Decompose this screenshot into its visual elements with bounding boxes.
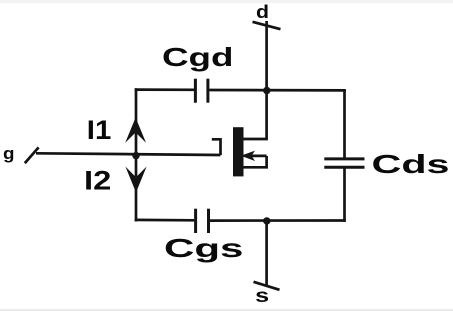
svg-text:s: s xyxy=(255,286,269,307)
capacitor Cgd xyxy=(195,79,208,103)
capacitor Cds xyxy=(324,159,364,167)
svg-text:I1: I1 xyxy=(87,115,112,145)
gate electrode xyxy=(212,139,221,155)
source lead xyxy=(244,156,267,167)
node source junction xyxy=(263,217,270,224)
node gate junction xyxy=(132,152,139,159)
channel bar xyxy=(233,127,244,176)
wire top-right (Cgd right plate to drain node and top-right corner) xyxy=(209,89,345,92)
terminal tick g xyxy=(25,147,39,163)
wire bottom-right (Cgs right plate to source node and bottom-right corner) xyxy=(210,219,346,222)
svg-text:Cds: Cds xyxy=(372,149,450,179)
svg-text:I2: I2 xyxy=(84,166,111,196)
terminal tick s xyxy=(254,282,280,290)
drain lead xyxy=(244,91,267,140)
wire left vertical (gate branch) xyxy=(135,88,138,221)
svg-text:Cgd: Cgd xyxy=(162,42,234,72)
wire drain terminal vertical xyxy=(265,21,268,91)
svg-text:g: g xyxy=(3,144,15,163)
current arrow I1 (up) xyxy=(125,118,146,143)
current arrow I2 (down) xyxy=(125,167,146,193)
wire source terminal vertical xyxy=(265,221,268,286)
wire gate horizontal (g terminal to MOSFET gate) xyxy=(36,153,221,155)
wire right vertical upper (drain to Cds top plate) xyxy=(343,89,346,159)
capacitor Cgs xyxy=(196,209,209,233)
svg-text:d: d xyxy=(256,2,269,22)
wire top-left (gate node to Cgd left plate) xyxy=(135,88,194,91)
terminal tick d xyxy=(253,22,281,29)
transistor M1 (MOSFET) xyxy=(212,91,267,177)
body lead with arrow xyxy=(246,155,267,158)
svg-text:Cgs: Cgs xyxy=(164,233,243,263)
wire right vertical lower (Cds bottom plate to source) xyxy=(343,167,346,222)
wire bottom-left (gate node to Cgs left plate) xyxy=(135,219,195,222)
node drain junction xyxy=(263,87,270,94)
